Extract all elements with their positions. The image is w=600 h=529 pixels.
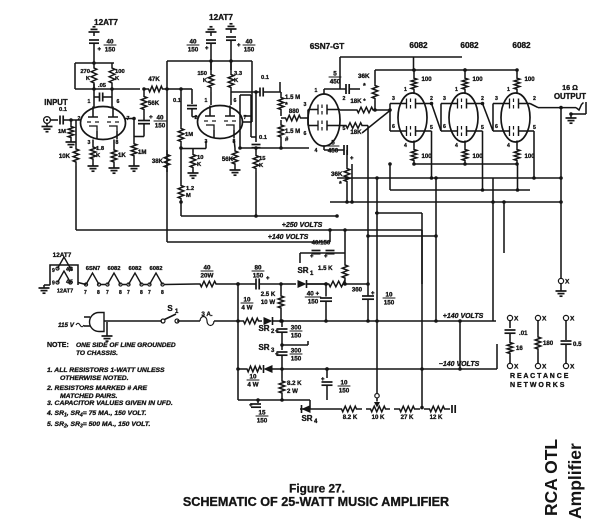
resistor R 100 plate V4 <box>411 68 432 93</box>
ground above C1 <box>89 27 100 36</box>
label htr tubes <box>86 266 163 272</box>
tube V5 6082 <box>449 93 478 142</box>
svg-text:3: 3 <box>443 96 446 102</box>
svg-text:+: + <box>275 352 279 358</box>
svg-text:6082: 6082 <box>150 266 163 272</box>
svg-text:3.3: 3.3 <box>234 71 243 77</box>
capacitor C 0.1 s2 <box>173 89 197 117</box>
resistor R 100 plate V6 <box>514 68 535 93</box>
note 2 <box>46 385 148 400</box>
ground above C2a <box>206 27 217 36</box>
svg-text:180: 180 <box>543 340 554 347</box>
svg-text:8: 8 <box>97 290 100 296</box>
label C1 40/150 <box>104 39 117 54</box>
svg-text:100: 100 <box>422 76 433 83</box>
resistor R 100 plate V5 <box>462 68 483 93</box>
wire V2 right box <box>238 95 256 150</box>
svg-text:+: + <box>324 254 328 260</box>
tube V3 6SN7-GT label <box>310 42 345 51</box>
resistor row 8.2K <box>336 406 362 421</box>
svg-text:+140 VOLTS: +140 VOLTS <box>443 313 484 320</box>
svg-text:7: 7 <box>84 290 87 296</box>
svg-text:6: 6 <box>392 124 395 130</box>
pin labels V5 <box>443 87 484 149</box>
resistor R 100 cath V6 <box>514 141 535 166</box>
sidebar RCA OTL <box>541 439 561 516</box>
svg-text:4 W: 4 W <box>247 382 258 389</box>
svg-text:100: 100 <box>115 69 125 75</box>
resistor R 1M s2 <box>178 89 193 184</box>
svg-text:1M: 1M <box>185 132 193 138</box>
wire V3 grid top <box>305 110 308 126</box>
wire 36K bottom stub <box>373 101 377 112</box>
svg-text:9: 9 <box>52 281 55 287</box>
svg-text:1M: 1M <box>58 129 66 135</box>
svg-text:+: + <box>149 114 153 121</box>
switch S1 <box>110 304 179 323</box>
svg-text:SR: SR <box>258 324 269 333</box>
svg-text:10: 10 <box>385 292 393 299</box>
svg-text:10: 10 <box>243 297 251 304</box>
svg-text:12AT7: 12AT7 <box>53 252 72 259</box>
capacitor C 0.1 coup <box>256 92 268 142</box>
svg-text:100: 100 <box>473 153 484 160</box>
resistor R 10K s2 <box>181 149 203 179</box>
svg-text:+: + <box>275 329 279 335</box>
wire left loop V4 <box>390 104 398 132</box>
heater box <box>50 257 78 285</box>
resistor R 56K s2 <box>222 140 241 176</box>
svg-text:56K: 56K <box>148 100 160 107</box>
input jack <box>42 98 68 132</box>
wire vert x490b <box>496 344 498 369</box>
heater chain <box>78 273 196 286</box>
htr pin nums <box>84 290 164 296</box>
resistor R 270K <box>80 63 96 88</box>
svg-text:6082: 6082 <box>108 266 121 272</box>
svg-text:10 K: 10 K <box>372 414 385 421</box>
note 5 <box>47 421 150 430</box>
tube V1 12AT7 <box>81 107 126 140</box>
label +140 VOLTS right <box>443 313 484 320</box>
svg-text:4: 4 <box>404 143 407 149</box>
label +250 VOLTS <box>282 222 323 229</box>
resistor R 40/20W <box>196 265 250 287</box>
svg-text:1: 1 <box>404 87 407 93</box>
svg-text:5: 5 <box>343 126 346 132</box>
pin labels V3 <box>304 88 346 154</box>
wire grid row <box>75 84 140 107</box>
svg-text:47K: 47K <box>148 76 160 83</box>
svg-text:OUTPUT: OUTPUT <box>554 92 586 101</box>
svg-text:150: 150 <box>308 299 319 306</box>
reactance branch 1 <box>505 315 529 370</box>
resistor R 56K a <box>141 89 160 117</box>
svg-text:2: 2 <box>533 96 536 102</box>
svg-text:R E A C T A N C E: R E A C T A N C E <box>510 373 569 380</box>
resistor R 100 cath V5 <box>462 141 483 166</box>
svg-text:7: 7 <box>106 290 109 296</box>
svg-text:SCHEMATIC OF 25-WATT MUSIC AMP: SCHEMATIC OF 25-WATT MUSIC AMPLIFIER <box>183 495 449 509</box>
svg-text:+250 VOLTS: +250 VOLTS <box>282 222 323 229</box>
wire +250 bus <box>76 228 422 232</box>
wire diag 6SN7 to V4 <box>362 111 390 134</box>
resistor R 1K <box>109 140 127 174</box>
svg-text:0.1: 0.1 <box>59 107 68 113</box>
svg-text:40: 40 <box>203 265 211 272</box>
resistor row 12K <box>424 406 450 421</box>
wire 6082 tops <box>340 57 462 89</box>
ground above C2b <box>226 24 237 33</box>
capacitor C 0.1 input <box>50 107 81 125</box>
wire bus y236 <box>368 235 436 237</box>
svg-text:X: X <box>570 364 575 371</box>
svg-text:4,5: 4,5 <box>66 280 73 286</box>
svg-text:150: 150 <box>291 333 302 340</box>
wire pin5 drop V5 <box>478 131 484 192</box>
svg-text:4,5: 4,5 <box>66 267 73 273</box>
resistor R 1.5M top <box>278 92 300 112</box>
label 40/150 mid <box>312 240 331 247</box>
svg-text:27 K: 27 K <box>401 414 414 421</box>
wire top rail stage2 <box>167 59 252 122</box>
svg-text:6082: 6082 <box>512 41 531 50</box>
svg-text:M: M <box>186 193 191 199</box>
svg-text:36K: 36K <box>358 73 370 80</box>
resistor R 1.5K psu <box>318 230 348 284</box>
resistor R 8.2K 2W <box>279 369 302 400</box>
svg-text:0.1: 0.1 <box>261 75 270 81</box>
svg-text:150: 150 <box>188 47 199 54</box>
AC plug <box>58 313 113 342</box>
resistor R 18K b <box>340 123 368 136</box>
tube V2 12AT7 <box>198 106 243 139</box>
svg-text:3: 3 <box>495 96 498 102</box>
resistor R 1.8K <box>88 143 105 171</box>
svg-text:6: 6 <box>443 124 446 130</box>
svg-text:Amplifier: Amplifier <box>565 443 585 519</box>
wire bus y190 <box>388 162 530 190</box>
svg-text:1M: 1M <box>138 149 146 156</box>
svg-text:6: 6 <box>495 124 498 130</box>
wire vert x368 <box>366 126 370 285</box>
wire vert x430 <box>421 230 423 284</box>
svg-text:SR: SR <box>301 414 312 423</box>
svg-text:+: + <box>98 47 102 53</box>
resistor R 10/4W a <box>238 297 262 324</box>
svg-text:+: + <box>371 291 375 297</box>
svg-text:150: 150 <box>384 300 395 307</box>
capacitor C 10/150 psu <box>362 291 395 307</box>
resistor R 1.2M <box>178 184 194 202</box>
resistor R 3.3K <box>228 61 243 105</box>
svg-text:40: 40 <box>245 39 253 46</box>
svg-text:0.5: 0.5 <box>573 341 582 348</box>
capacitor C 15/150 <box>249 400 268 425</box>
svg-text:−140 VOLTS: −140 VOLTS <box>439 361 480 368</box>
svg-text:N E T W O R K S: N E T W O R K S <box>510 382 565 389</box>
label SR3 <box>258 343 275 354</box>
svg-text:16: 16 <box>516 345 523 352</box>
svg-text:+: + <box>205 46 209 52</box>
svg-text:10: 10 <box>249 374 257 381</box>
svg-text:5: 5 <box>333 71 337 78</box>
tube V6 6082 <box>501 93 530 142</box>
wire V2 pin7 <box>243 121 252 123</box>
cap row end <box>450 405 455 413</box>
svg-text:36K: 36K <box>331 171 343 178</box>
resistor R 1.5M bot <box>278 120 300 150</box>
svg-text:12AT7: 12AT7 <box>94 18 118 27</box>
resistor R 18K a <box>340 98 392 113</box>
svg-text:2: 2 <box>78 116 81 122</box>
note 3 <box>47 400 173 407</box>
capacitor C 5/450 top <box>324 71 360 95</box>
svg-text:+: + <box>237 43 241 49</box>
label +140 VOLTS upper <box>268 234 309 241</box>
wire bus y202 <box>330 200 563 204</box>
svg-text:1. ALL RESISTORS 1-WATT UNLESS: 1. ALL RESISTORS 1-WATT UNLESS <box>47 367 165 374</box>
svg-text:4: 4 <box>455 143 458 149</box>
svg-text:40: 40 <box>106 39 114 46</box>
diode SR1 <box>281 280 328 288</box>
wire bus y178 <box>337 176 563 180</box>
resistor R 100 cath V4 <box>411 141 432 166</box>
wire output down <box>559 106 563 279</box>
svg-text:5: 5 <box>481 125 484 131</box>
svg-text:1.5 M: 1.5 M <box>285 94 300 101</box>
svg-text:3: 3 <box>392 96 395 102</box>
capacitor C 10/150 b <box>321 367 350 400</box>
wire bottom rail <box>238 398 310 402</box>
svg-text:8: 8 <box>161 290 164 296</box>
resistor R 36K bot <box>331 150 350 204</box>
wire grid V2 <box>192 116 198 118</box>
svg-text:+: + <box>266 276 270 282</box>
svg-text:6: 6 <box>304 131 307 137</box>
svg-text:2: 2 <box>343 96 346 102</box>
capacitor C 80/150 <box>250 265 283 290</box>
label C2b <box>243 39 256 54</box>
wire stage2 coupling <box>279 82 281 92</box>
wire vert x504 <box>503 202 505 253</box>
svg-text:2: 2 <box>430 96 433 102</box>
svg-text:150: 150 <box>197 71 207 77</box>
label SR1 <box>297 266 314 277</box>
wire +140 bus upper <box>167 228 332 242</box>
svg-text:360: 360 <box>352 287 363 294</box>
svg-text:+: + <box>350 156 354 162</box>
svg-text:150: 150 <box>257 418 268 425</box>
svg-text:1.5 M: 1.5 M <box>285 128 300 135</box>
wire pin5 drop V6 <box>530 131 536 180</box>
svg-text:12AT7: 12AT7 <box>57 289 73 295</box>
svg-text:150: 150 <box>155 123 166 130</box>
svg-text:2. RESISTORS MARKED # ARE: 2. RESISTORS MARKED # ARE <box>46 385 148 392</box>
svg-text:1.2: 1.2 <box>186 186 194 192</box>
svg-text:6082: 6082 <box>460 41 479 50</box>
svg-text:10K: 10K <box>59 153 71 160</box>
svg-text:+140 VOLTS: +140 VOLTS <box>268 234 309 241</box>
svg-text:RCA OTL: RCA OTL <box>541 439 561 516</box>
label SR2 <box>258 324 275 335</box>
svg-text:15: 15 <box>259 156 266 162</box>
wire psu x368 down <box>366 284 379 323</box>
svg-text:38K: 38K <box>152 158 164 165</box>
svg-text:6SN7-GT: 6SN7-GT <box>310 42 345 51</box>
svg-text:X: X <box>565 279 570 286</box>
fuse 3A <box>177 311 240 326</box>
reactance branch 2 <box>535 315 554 370</box>
svg-text:1: 1 <box>88 99 91 105</box>
capacitor C 300/150 a <box>275 321 302 347</box>
svg-text:80: 80 <box>254 265 262 272</box>
svg-text:150: 150 <box>105 47 116 54</box>
wire vert x460 <box>459 321 461 369</box>
label 12AT7 htr top <box>53 252 72 259</box>
svg-text:1.5 K: 1.5 K <box>318 265 333 272</box>
tube V1 12AT7 label <box>94 18 118 27</box>
wire plate top 6082 <box>375 68 517 72</box>
svg-text:20W: 20W <box>201 273 214 280</box>
svg-text:40: 40 <box>156 115 164 122</box>
resistor R 15K <box>252 145 267 217</box>
terminal X gnd <box>556 278 571 296</box>
label C2a <box>187 39 200 54</box>
caption figure <box>289 482 345 496</box>
svg-text:.01: .01 <box>519 330 528 337</box>
resistor R 150K <box>197 61 213 105</box>
svg-text:300: 300 <box>291 348 302 355</box>
pin labels V4 <box>392 87 433 149</box>
note 1 <box>47 367 165 382</box>
svg-text:0.1: 0.1 <box>259 135 268 141</box>
svg-text:300: 300 <box>291 325 302 332</box>
tube V3 6SN7 <box>308 94 340 146</box>
resistor R 2.5K 10W <box>261 284 284 323</box>
label reactance <box>510 373 569 389</box>
caption title <box>183 495 449 509</box>
wire net A <box>193 141 309 150</box>
capacitor C 0.1 s2b <box>231 75 281 97</box>
wire pin2 V5 diag <box>478 102 493 131</box>
svg-text:100: 100 <box>473 76 484 83</box>
svg-text:880: 880 <box>289 108 300 115</box>
reactance branch 3 <box>561 315 583 370</box>
svg-text:*: * <box>363 83 366 90</box>
svg-text:Figure 27.: Figure 27. <box>289 482 345 496</box>
capacitor C2a 40/150 <box>205 40 216 70</box>
svg-text:150: 150 <box>291 356 302 363</box>
pin labels V6 <box>495 87 536 149</box>
svg-text:3. CAPACITOR VALUES GIVEN IN U: 3. CAPACITOR VALUES GIVEN IN UFD. <box>47 400 173 407</box>
wire bus y213 <box>375 211 422 215</box>
svg-text:5: 5 <box>533 125 536 131</box>
svg-text:*: * <box>285 102 288 109</box>
svg-text:4: 4 <box>507 143 510 149</box>
svg-text:MATCHED PAIRS.: MATCHED PAIRS. <box>60 393 118 400</box>
svg-text:6SN7: 6SN7 <box>86 266 101 272</box>
svg-text:450: 450 <box>328 148 339 155</box>
svg-text:X: X <box>542 364 547 371</box>
svg-text:1: 1 <box>507 87 510 93</box>
pin labels V1 <box>78 99 130 146</box>
svg-text:NOTE:: NOTE: <box>47 342 69 349</box>
svg-text:40: 40 <box>189 39 197 46</box>
wire mid tap <box>282 341 308 345</box>
svg-text:9: 9 <box>52 268 55 274</box>
wire bus y216 <box>179 200 339 218</box>
svg-text:10: 10 <box>340 380 348 387</box>
svg-text:270: 270 <box>80 69 90 75</box>
svg-text:18K *: 18K * <box>350 98 366 105</box>
svg-text:6: 6 <box>117 99 120 105</box>
resistor R 10K <box>59 120 79 230</box>
svg-text:S: S <box>167 304 173 313</box>
label R 10/4W b <box>247 374 260 389</box>
resistor R 100K <box>109 63 124 88</box>
label -140 VOLTS <box>439 361 480 368</box>
tube V2 12AT7 label <box>209 13 233 22</box>
svg-text:2 W: 2 W <box>287 388 298 395</box>
svg-text:40/150: 40/150 <box>312 240 331 247</box>
svg-text:56K: 56K <box>222 156 234 163</box>
tube V5 6082 label <box>460 41 479 50</box>
svg-text:8: 8 <box>116 140 119 146</box>
diode SR2 <box>264 317 497 325</box>
wire vert x489 <box>491 178 495 321</box>
svg-text:100: 100 <box>525 76 536 83</box>
tube V4 6082 label <box>409 41 428 50</box>
capacitor C 40/150 out <box>134 114 166 137</box>
resistor R 1M grid2 <box>129 137 147 172</box>
svg-text:150: 150 <box>244 47 255 54</box>
resistor R 360 <box>307 281 370 293</box>
label SR4 <box>301 414 318 425</box>
resistor R 47K <box>142 76 183 92</box>
capacitor C 40+/150 <box>305 284 332 323</box>
svg-text:+: + <box>249 403 253 409</box>
wire left loop V5 <box>441 104 449 132</box>
svg-text:115 V: 115 V <box>58 322 75 329</box>
diode SR4 <box>300 400 336 413</box>
svg-text:OTHERWISE NOTED.: OTHERWISE NOTED. <box>60 375 129 382</box>
note line <box>47 342 176 357</box>
svg-text:150: 150 <box>253 273 264 280</box>
svg-text:100: 100 <box>422 153 433 160</box>
svg-text:1: 1 <box>315 88 318 94</box>
svg-text:8.2 K: 8.2 K <box>343 414 358 421</box>
wire vert x436 <box>420 176 438 409</box>
svg-text:150: 150 <box>339 388 350 395</box>
tube V6 6082 label <box>512 41 531 50</box>
wire pin5 drop V4 <box>427 131 433 180</box>
svg-text:+: + <box>321 377 325 383</box>
heater gnd <box>39 285 51 293</box>
svg-text:SR: SR <box>258 343 269 352</box>
svg-text:4 W: 4 W <box>241 305 252 312</box>
wire left loop V6 <box>493 104 501 132</box>
svg-text:12AT7: 12AT7 <box>209 13 233 22</box>
svg-text:3: 3 <box>304 102 307 108</box>
capacitor C1 40/150 <box>89 40 102 63</box>
resistor R 880 <box>281 108 305 121</box>
wire vert x238 <box>236 282 240 400</box>
svg-text:1.8: 1.8 <box>96 146 105 152</box>
wire pin2 V4 diag <box>427 102 441 131</box>
svg-text:2: 2 <box>481 96 484 102</box>
svg-text:INPUT: INPUT <box>44 98 68 107</box>
